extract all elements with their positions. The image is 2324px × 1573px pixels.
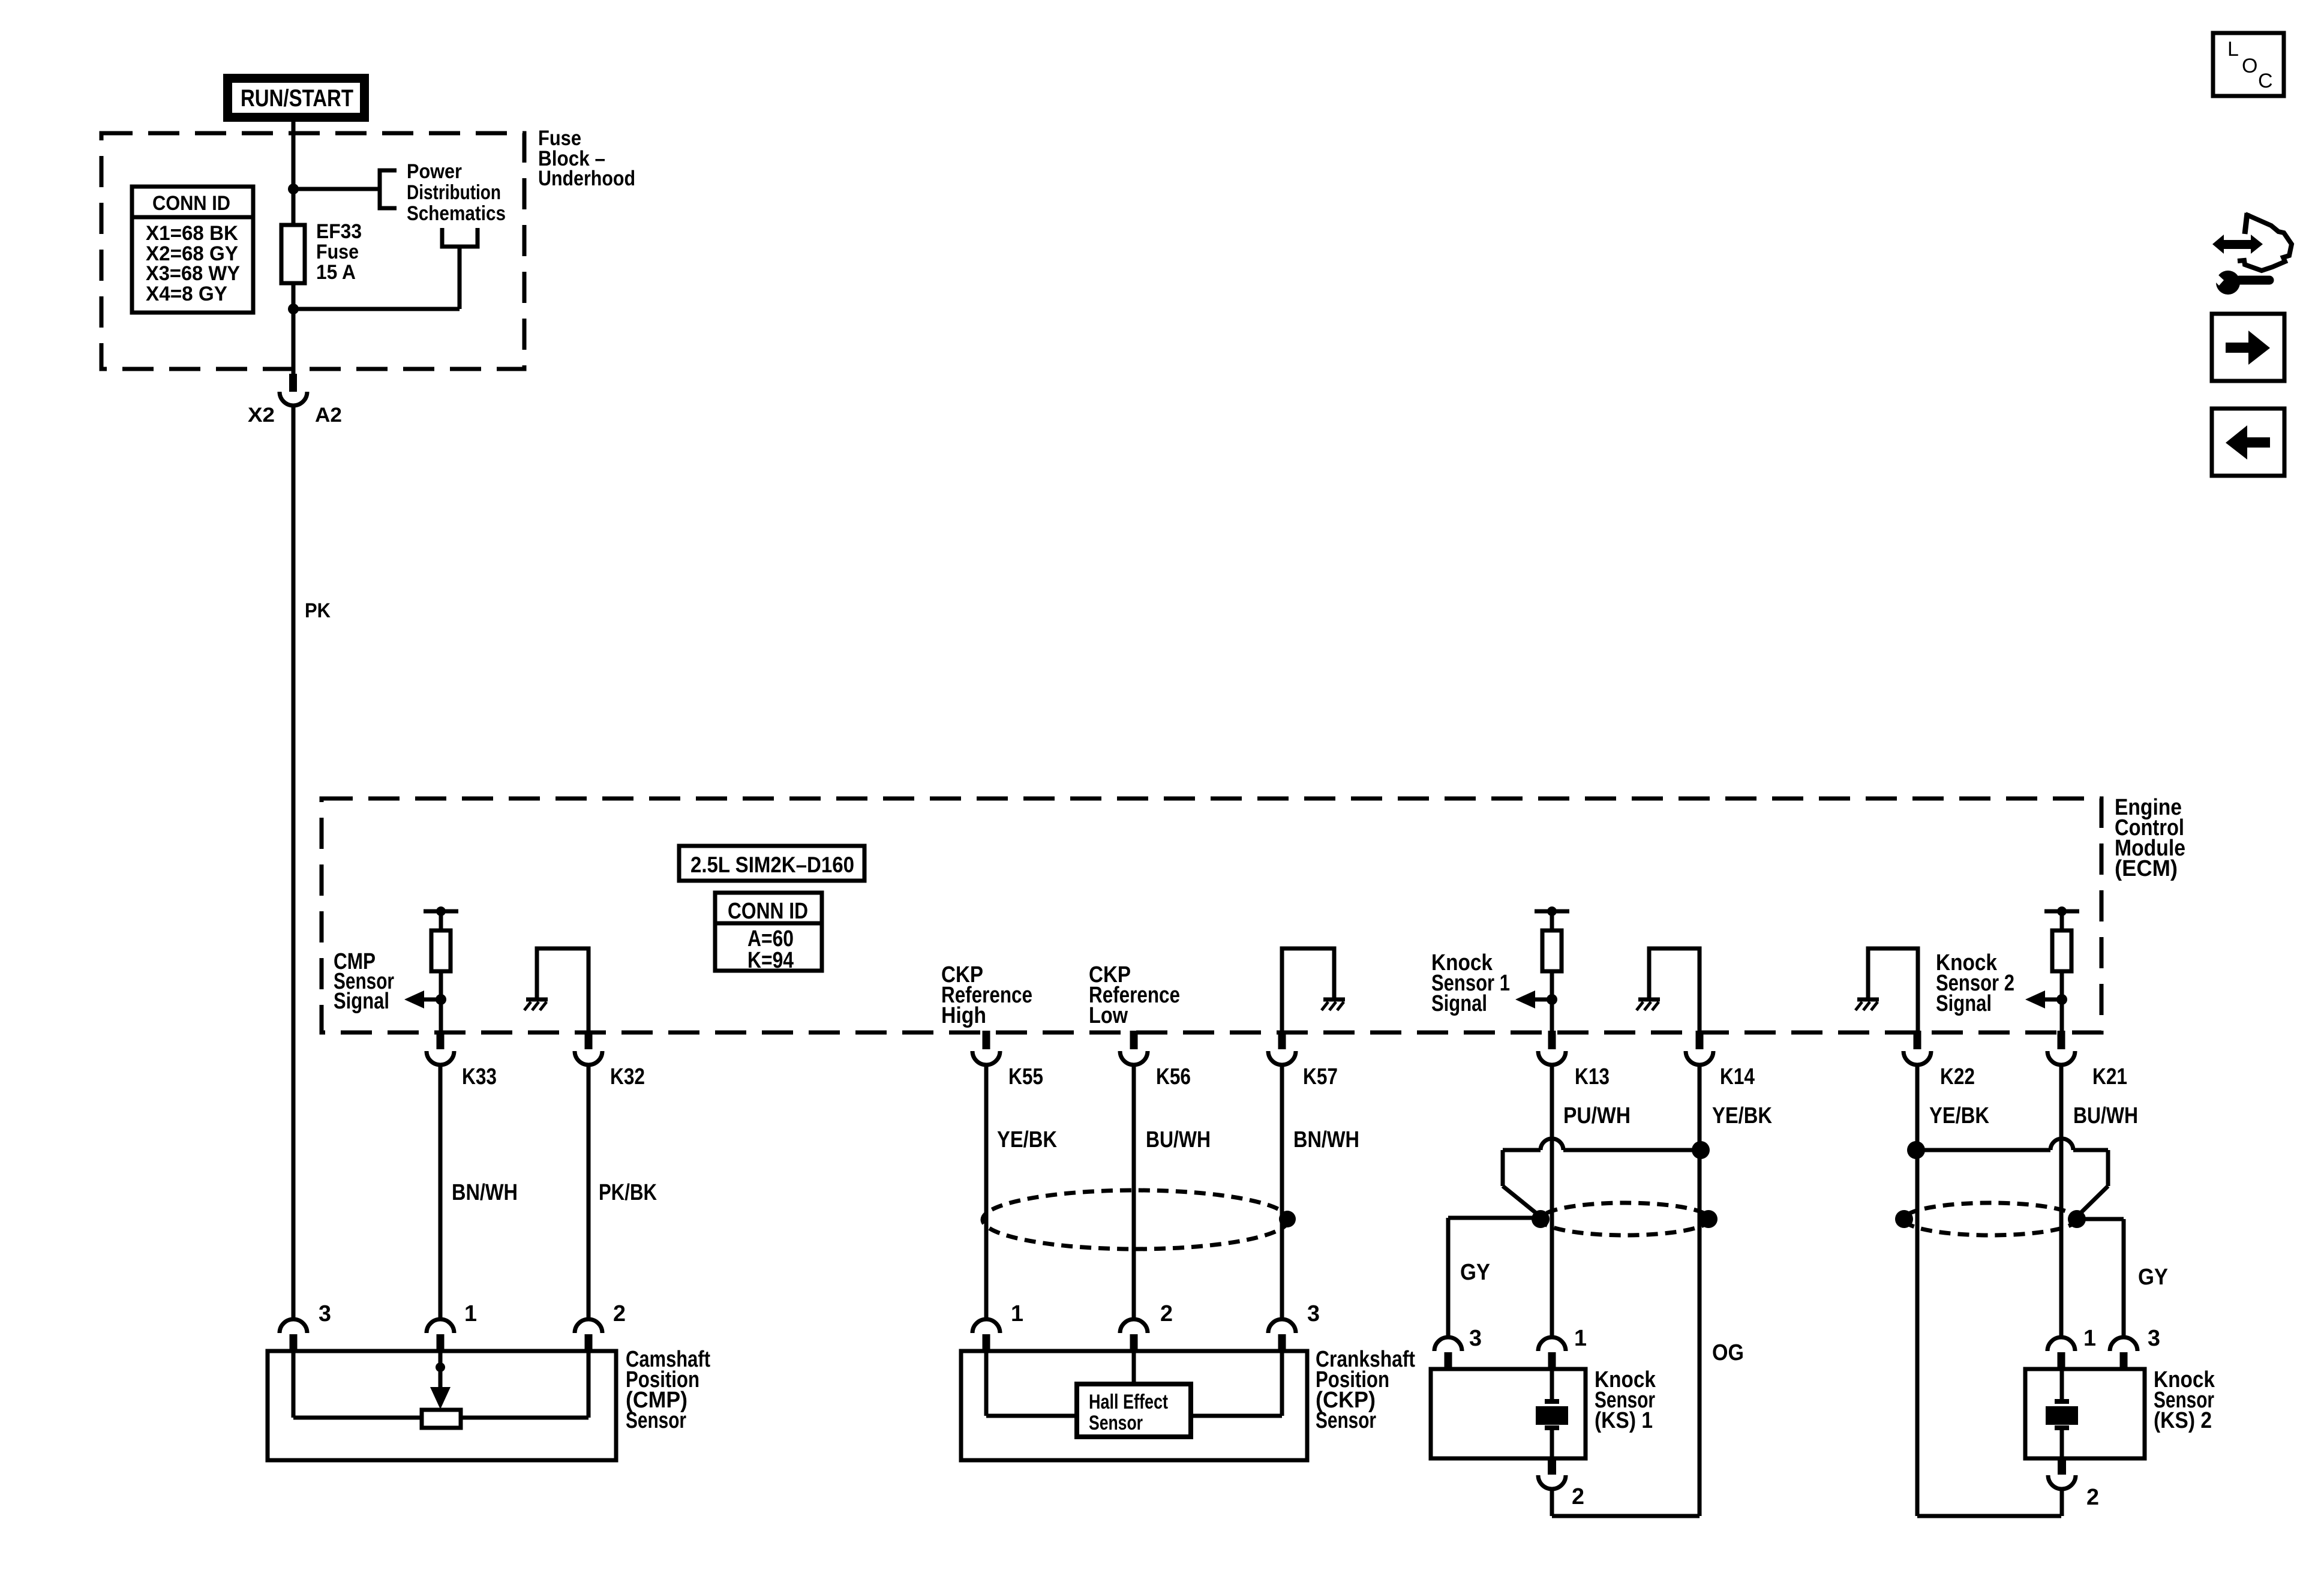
wire GY (KS2) <box>2077 1219 2124 1337</box>
node KS2 shield right <box>2068 1210 2086 1228</box>
svg-text:Signal: Signal <box>1936 991 1992 1016</box>
ECM dashed outline <box>322 798 2101 1032</box>
label Crankshaft Position (CKP) Sensor <box>1316 1347 1415 1433</box>
label K57 <box>1303 1064 1338 1089</box>
svg-text:BN/WH: BN/WH <box>1293 1127 1359 1152</box>
connector KS2 pin 2 <box>2048 1458 2076 1489</box>
label Engine Control Module (ECM) <box>2115 795 2185 881</box>
shield ellipse CKP <box>983 1190 1289 1249</box>
wire CKP pin2 internal <box>1132 1351 1136 1385</box>
indicator RUN/START box <box>223 74 369 122</box>
svg-text:PU/WH: PU/WH <box>1563 1103 1631 1128</box>
label BN/WH (CKP) <box>1293 1127 1359 1152</box>
svg-text:3: 3 <box>319 1301 331 1326</box>
box 2.5L SIM2K-D160 <box>679 846 864 881</box>
svg-text:1: 1 <box>464 1301 477 1326</box>
svg-text:K13: K13 <box>1575 1064 1610 1089</box>
piezo element KS2 <box>2046 1369 2078 1458</box>
label Fuse Block - Underhood <box>538 127 635 190</box>
svg-text:A2: A2 <box>315 404 342 427</box>
node K14 junction <box>1692 1141 1710 1159</box>
svg-text:2: 2 <box>2086 1485 2099 1510</box>
resistor KS1 pull-up <box>1515 906 1569 1032</box>
wire PK/BK (K32) <box>587 1065 591 1319</box>
ground CMP <box>524 999 548 1010</box>
svg-text:K14: K14 <box>1720 1064 1755 1089</box>
off-page bracket (power distribution) <box>380 170 397 208</box>
connector KS2 pin 3 <box>2110 1337 2137 1370</box>
wire KS2 pin2 stub <box>2060 1489 2064 1516</box>
connector CMP pin 1 <box>427 1319 454 1352</box>
wire CKP pin1 internal <box>986 1351 1077 1416</box>
wire KS1 pin2 to OG <box>1552 1489 1700 1516</box>
svg-text:CONN ID: CONN ID <box>728 899 808 924</box>
box Hall Effect Sensor <box>1077 1384 1191 1437</box>
svg-text:2.5L SIM2K–D160: 2.5L SIM2K–D160 <box>690 852 854 877</box>
svg-text:PK: PK <box>305 599 331 622</box>
off-page return bracket <box>442 228 478 247</box>
label Knock Sensor (KS) 1 <box>1595 1367 1656 1433</box>
node K22 junction <box>1907 1141 1925 1159</box>
connector CKP pin 3 <box>1268 1319 1296 1352</box>
icon diagnostic shortcut <box>2211 213 2292 295</box>
fuse EF33 15 A <box>281 225 305 283</box>
label BU/WH (CKP) <box>1146 1127 1211 1152</box>
wire KS2 shield link <box>1916 1139 2108 1217</box>
svg-text:High: High <box>941 1003 986 1028</box>
resistor CMP element <box>422 1410 461 1428</box>
svg-text:X4=8 GY: X4=8 GY <box>146 283 227 305</box>
svg-text:2: 2 <box>1572 1484 1584 1509</box>
connector CMP pin 2 <box>575 1319 602 1352</box>
ground KS1 <box>1637 999 1660 1010</box>
svg-text:Distribution: Distribution <box>407 181 501 204</box>
svg-text:BN/WH: BN/WH <box>452 1180 518 1205</box>
box CMP sensor <box>268 1351 616 1460</box>
svg-text:Signal: Signal <box>334 989 389 1014</box>
wire GY (KS1) <box>1448 1218 1541 1337</box>
label A2 <box>315 404 342 427</box>
connector K32 <box>575 1031 602 1065</box>
wire KS1 ground loop <box>1649 948 1700 1031</box>
resistor CMP pull-up <box>404 906 458 1032</box>
node KS2 shield left <box>1895 1210 1913 1228</box>
svg-text:L: L <box>2227 38 2239 61</box>
label PK/BK <box>599 1180 657 1205</box>
svg-text:(ECM): (ECM) <box>2115 856 2178 881</box>
label K13 <box>1575 1064 1610 1089</box>
connector K13 <box>1538 1031 1566 1065</box>
icon forward arrow box <box>2212 314 2284 381</box>
label GY (KS1) <box>1460 1260 1490 1285</box>
label Knock Sensor 1 Signal <box>1431 950 1510 1016</box>
label CKP pin 2 <box>1160 1301 1173 1326</box>
node fuse-in junction <box>288 184 299 194</box>
label Camshaft Position (CMP) Sensor <box>626 1347 710 1433</box>
node fuse-out junction <box>288 304 299 314</box>
label YE/BK (KS2) <box>1929 1103 1989 1128</box>
label BN/WH (CMP) <box>452 1180 518 1205</box>
svg-text:K22: K22 <box>1940 1064 1975 1089</box>
svg-text:C: C <box>2258 70 2273 92</box>
label CMP pin 3 <box>319 1301 331 1326</box>
svg-text:CONN ID: CONN ID <box>152 192 230 215</box>
svg-text:1: 1 <box>1574 1326 1587 1351</box>
svg-text:O: O <box>2242 55 2257 77</box>
svg-text:PK/BK: PK/BK <box>599 1180 657 1205</box>
svg-text:3: 3 <box>1469 1326 1482 1351</box>
svg-text:GY: GY <box>1460 1260 1490 1285</box>
connector K22 <box>1903 1031 1931 1065</box>
wire KS1 shield link <box>1503 1139 1700 1217</box>
node KS1 shield left <box>1532 1210 1550 1228</box>
svg-text:K33: K33 <box>462 1064 497 1089</box>
svg-text:1: 1 <box>2083 1326 2096 1351</box>
connector CKP pin 2 <box>1120 1319 1148 1352</box>
svg-text:K32: K32 <box>610 1064 645 1089</box>
node CKP shield drain <box>1279 1211 1296 1227</box>
label OG <box>1712 1340 1744 1365</box>
icon LOC box <box>2213 33 2284 96</box>
label YE/BK (CKP) <box>997 1127 1057 1152</box>
svg-text:1: 1 <box>1011 1301 1023 1326</box>
piezo element KS1 <box>1536 1369 1568 1458</box>
svg-text:K21: K21 <box>2092 1064 2127 1089</box>
connector X2/A2 <box>280 374 307 406</box>
label BU/WH (KS2) <box>2073 1103 2138 1128</box>
svg-text:K55: K55 <box>1008 1064 1043 1089</box>
label KS2 pin 2 <box>2086 1485 2099 1510</box>
fuse block F/B-UH dashed outline <box>101 133 524 369</box>
label K33 <box>462 1064 497 1089</box>
label KS1 pin 1 <box>1574 1326 1587 1351</box>
wire BU/WH (K56) <box>1132 1065 1136 1319</box>
ground CKP <box>1322 999 1345 1010</box>
label KS1 pin 3 <box>1469 1326 1482 1351</box>
connector K56 <box>1120 1031 1148 1065</box>
svg-text:X1=68 BK: X1=68 BK <box>146 222 238 245</box>
svg-text:Schematics: Schematics <box>407 202 506 225</box>
svg-text:RUN/START: RUN/START <box>241 85 353 112</box>
label KS2 pin 1 <box>2083 1326 2096 1351</box>
wire CMP pin1 internal <box>439 1351 443 1389</box>
label CMP pin 1 <box>464 1301 477 1326</box>
connector KS1 pin 3 <box>1434 1337 1462 1370</box>
svg-text:(KS) 1: (KS) 1 <box>1595 1408 1653 1433</box>
connector K21 <box>2047 1031 2075 1065</box>
svg-text:K56: K56 <box>1156 1064 1191 1089</box>
svg-text:YE/BK: YE/BK <box>1929 1103 1989 1128</box>
svg-text:2: 2 <box>613 1301 626 1326</box>
connector K55 <box>972 1031 1000 1065</box>
svg-text:Hall Effect: Hall Effect <box>1089 1391 1168 1413</box>
svg-text:X3=68 WY: X3=68 WY <box>146 262 240 285</box>
connector K33 <box>427 1031 454 1065</box>
label CMP Sensor Signal <box>334 949 394 1014</box>
label CKP pin 1 <box>1011 1301 1023 1326</box>
label KS1 pin 2 <box>1572 1484 1584 1509</box>
wire BU/WH (K21) <box>2059 1065 2064 1337</box>
label Knock Sensor 2 Signal <box>1936 950 2014 1016</box>
box Knock Sensor KS1 <box>1431 1369 1586 1458</box>
arrow CMP sense <box>430 1387 451 1409</box>
table CONN ID (ECM) <box>715 893 822 973</box>
wire YE/BK (K14/OG) <box>1698 1065 1702 1516</box>
shield ellipse KS2 <box>1904 1203 2077 1235</box>
svg-text:Underhood: Underhood <box>538 167 635 190</box>
svg-text:Signal: Signal <box>1431 991 1487 1016</box>
table CONN ID (fuse block) <box>132 187 253 313</box>
svg-text:Power: Power <box>407 160 462 183</box>
connector CKP pin 1 <box>972 1319 1000 1352</box>
wire YE/BK (K22) <box>1917 1065 2061 1516</box>
wire RUN/START feed <box>292 122 296 374</box>
wire BN/WH (K33) <box>439 1065 443 1319</box>
svg-text:Sensor: Sensor <box>1316 1408 1376 1433</box>
label K56 <box>1156 1064 1191 1089</box>
connector KS2 pin 1 <box>2047 1337 2075 1370</box>
label GY (KS2) <box>2138 1265 2168 1290</box>
wire CMP ground loop <box>537 948 588 1031</box>
label PK <box>305 599 331 622</box>
label CMP pin 2 <box>613 1301 626 1326</box>
node CMP sense <box>436 1362 445 1372</box>
wire PK <box>292 406 296 1319</box>
label K21 <box>2092 1064 2127 1089</box>
resistor KS2 pull-up <box>2025 906 2079 1032</box>
svg-text:15 A: 15 A <box>316 261 356 284</box>
label K22 <box>1940 1064 1975 1089</box>
wire KS2 ground loop <box>1868 948 1918 1031</box>
svg-text:EF33: EF33 <box>316 220 362 243</box>
label KS2 pin 3 <box>2148 1326 2160 1351</box>
label CKP pin 3 <box>1307 1301 1320 1326</box>
wire CMP pin2 internal <box>461 1351 588 1418</box>
svg-text:YE/BK: YE/BK <box>997 1127 1057 1152</box>
label K55 <box>1008 1064 1043 1089</box>
svg-text:Sensor: Sensor <box>626 1408 686 1433</box>
svg-text:Sensor: Sensor <box>1089 1412 1143 1434</box>
wire PU/WH (K13) <box>1550 1065 1554 1337</box>
connector K57 <box>1268 1031 1296 1065</box>
label CKP Reference Low <box>1089 962 1180 1028</box>
shield ellipse KS1 <box>1541 1203 1710 1235</box>
label CKP Reference High <box>941 962 1032 1028</box>
svg-text:X2: X2 <box>248 404 275 427</box>
connector KS1 pin 2 <box>1538 1458 1566 1489</box>
wire CKP ground loop <box>1282 948 1334 1031</box>
wire YE/BK (K55) <box>984 1065 989 1319</box>
svg-text:K57: K57 <box>1303 1064 1338 1089</box>
ground KS2 <box>1855 999 1879 1010</box>
label Knock Sensor (KS) 2 <box>2154 1367 2215 1433</box>
svg-text:K=94: K=94 <box>747 948 794 973</box>
box CKP sensor <box>961 1351 1307 1460</box>
label K14 <box>1720 1064 1755 1089</box>
connector CMP pin 3 <box>280 1319 307 1352</box>
svg-text:GY: GY <box>2138 1265 2168 1290</box>
svg-text:OG: OG <box>1712 1340 1744 1365</box>
svg-text:3: 3 <box>2148 1326 2160 1351</box>
svg-text:2: 2 <box>1160 1301 1173 1326</box>
svg-text:3: 3 <box>1307 1301 1320 1326</box>
svg-text:BU/WH: BU/WH <box>2073 1103 2138 1128</box>
label X2 <box>248 404 275 427</box>
label K32 <box>610 1064 645 1089</box>
svg-text:Low: Low <box>1089 1003 1128 1028</box>
label Power Distribution Schematics <box>407 160 506 225</box>
label PU/WH <box>1563 1103 1631 1128</box>
wire branch to power distribution <box>293 187 380 191</box>
svg-text:YE/BK: YE/BK <box>1712 1103 1772 1128</box>
label YE/BK (KS1) <box>1712 1103 1772 1128</box>
wire CKP pin3 internal <box>1191 1351 1282 1416</box>
svg-text:(KS) 2: (KS) 2 <box>2154 1408 2212 1433</box>
svg-text:BU/WH: BU/WH <box>1146 1127 1211 1152</box>
wire CMP pin3 internal <box>293 1351 422 1418</box>
svg-text:Fuse: Fuse <box>316 241 359 263</box>
icon back arrow box <box>2212 409 2284 476</box>
wire return to node <box>293 247 460 309</box>
connector K14 <box>1686 1031 1713 1065</box>
label EF33 Fuse 15 A <box>316 220 362 284</box>
connector KS1 pin 1 <box>1538 1337 1566 1370</box>
node KS1 shield right <box>1700 1210 1718 1228</box>
wire BN/WH (K57) <box>1280 1065 1284 1319</box>
box Knock Sensor KS2 <box>2025 1369 2145 1458</box>
